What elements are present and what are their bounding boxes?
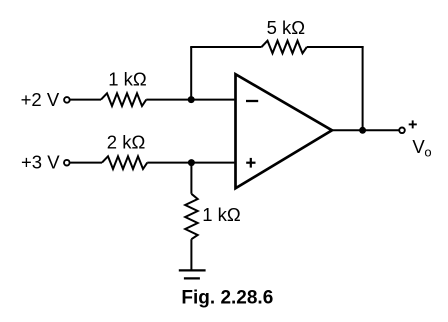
terminal input 2 [64, 160, 70, 166]
op-amp minus pin mark [246, 100, 258, 102]
wire [362, 46, 364, 130]
ground [179, 269, 206, 271]
output plus polarity mark [409, 123, 417, 125]
terminal input 1 [64, 97, 70, 103]
resistor R4 1 kOhm vertical [185, 194, 198, 239]
svg-text:Fig. 2.28.6: Fig. 2.28.6 [181, 288, 273, 309]
wire [307, 46, 364, 48]
wire output [332, 129, 399, 131]
resistor R2 2 kOhm [102, 156, 147, 169]
wire [190, 46, 261, 48]
resistor R3 5 kOhm feedback [262, 41, 307, 54]
svg-text:1 kΩ: 1 kΩ [202, 204, 241, 225]
wire [70, 99, 101, 101]
wire [190, 239, 192, 270]
svg-text:5 kΩ: 5 kΩ [267, 17, 306, 38]
op-amp U1 [236, 74, 333, 188]
resistor R1 1 kOhm [101, 93, 146, 106]
svg-text:2 kΩ: 2 kΩ [107, 131, 146, 152]
wire [190, 47, 192, 100]
wire [190, 163, 192, 194]
svg-text:1 kΩ: 1 kΩ [108, 69, 147, 90]
wire [70, 162, 102, 164]
svg-text:o: o [424, 144, 431, 159]
op-amp plus pin mark [246, 162, 255, 164]
wire [147, 162, 234, 164]
wire [146, 99, 234, 101]
terminal output [399, 128, 405, 134]
svg-text:+2 V: +2 V [21, 89, 60, 110]
node junction noninverting input [188, 159, 195, 166]
svg-text:+3 V: +3 V [21, 152, 60, 173]
node junction inverting input [188, 96, 195, 103]
node output junction [359, 127, 366, 134]
